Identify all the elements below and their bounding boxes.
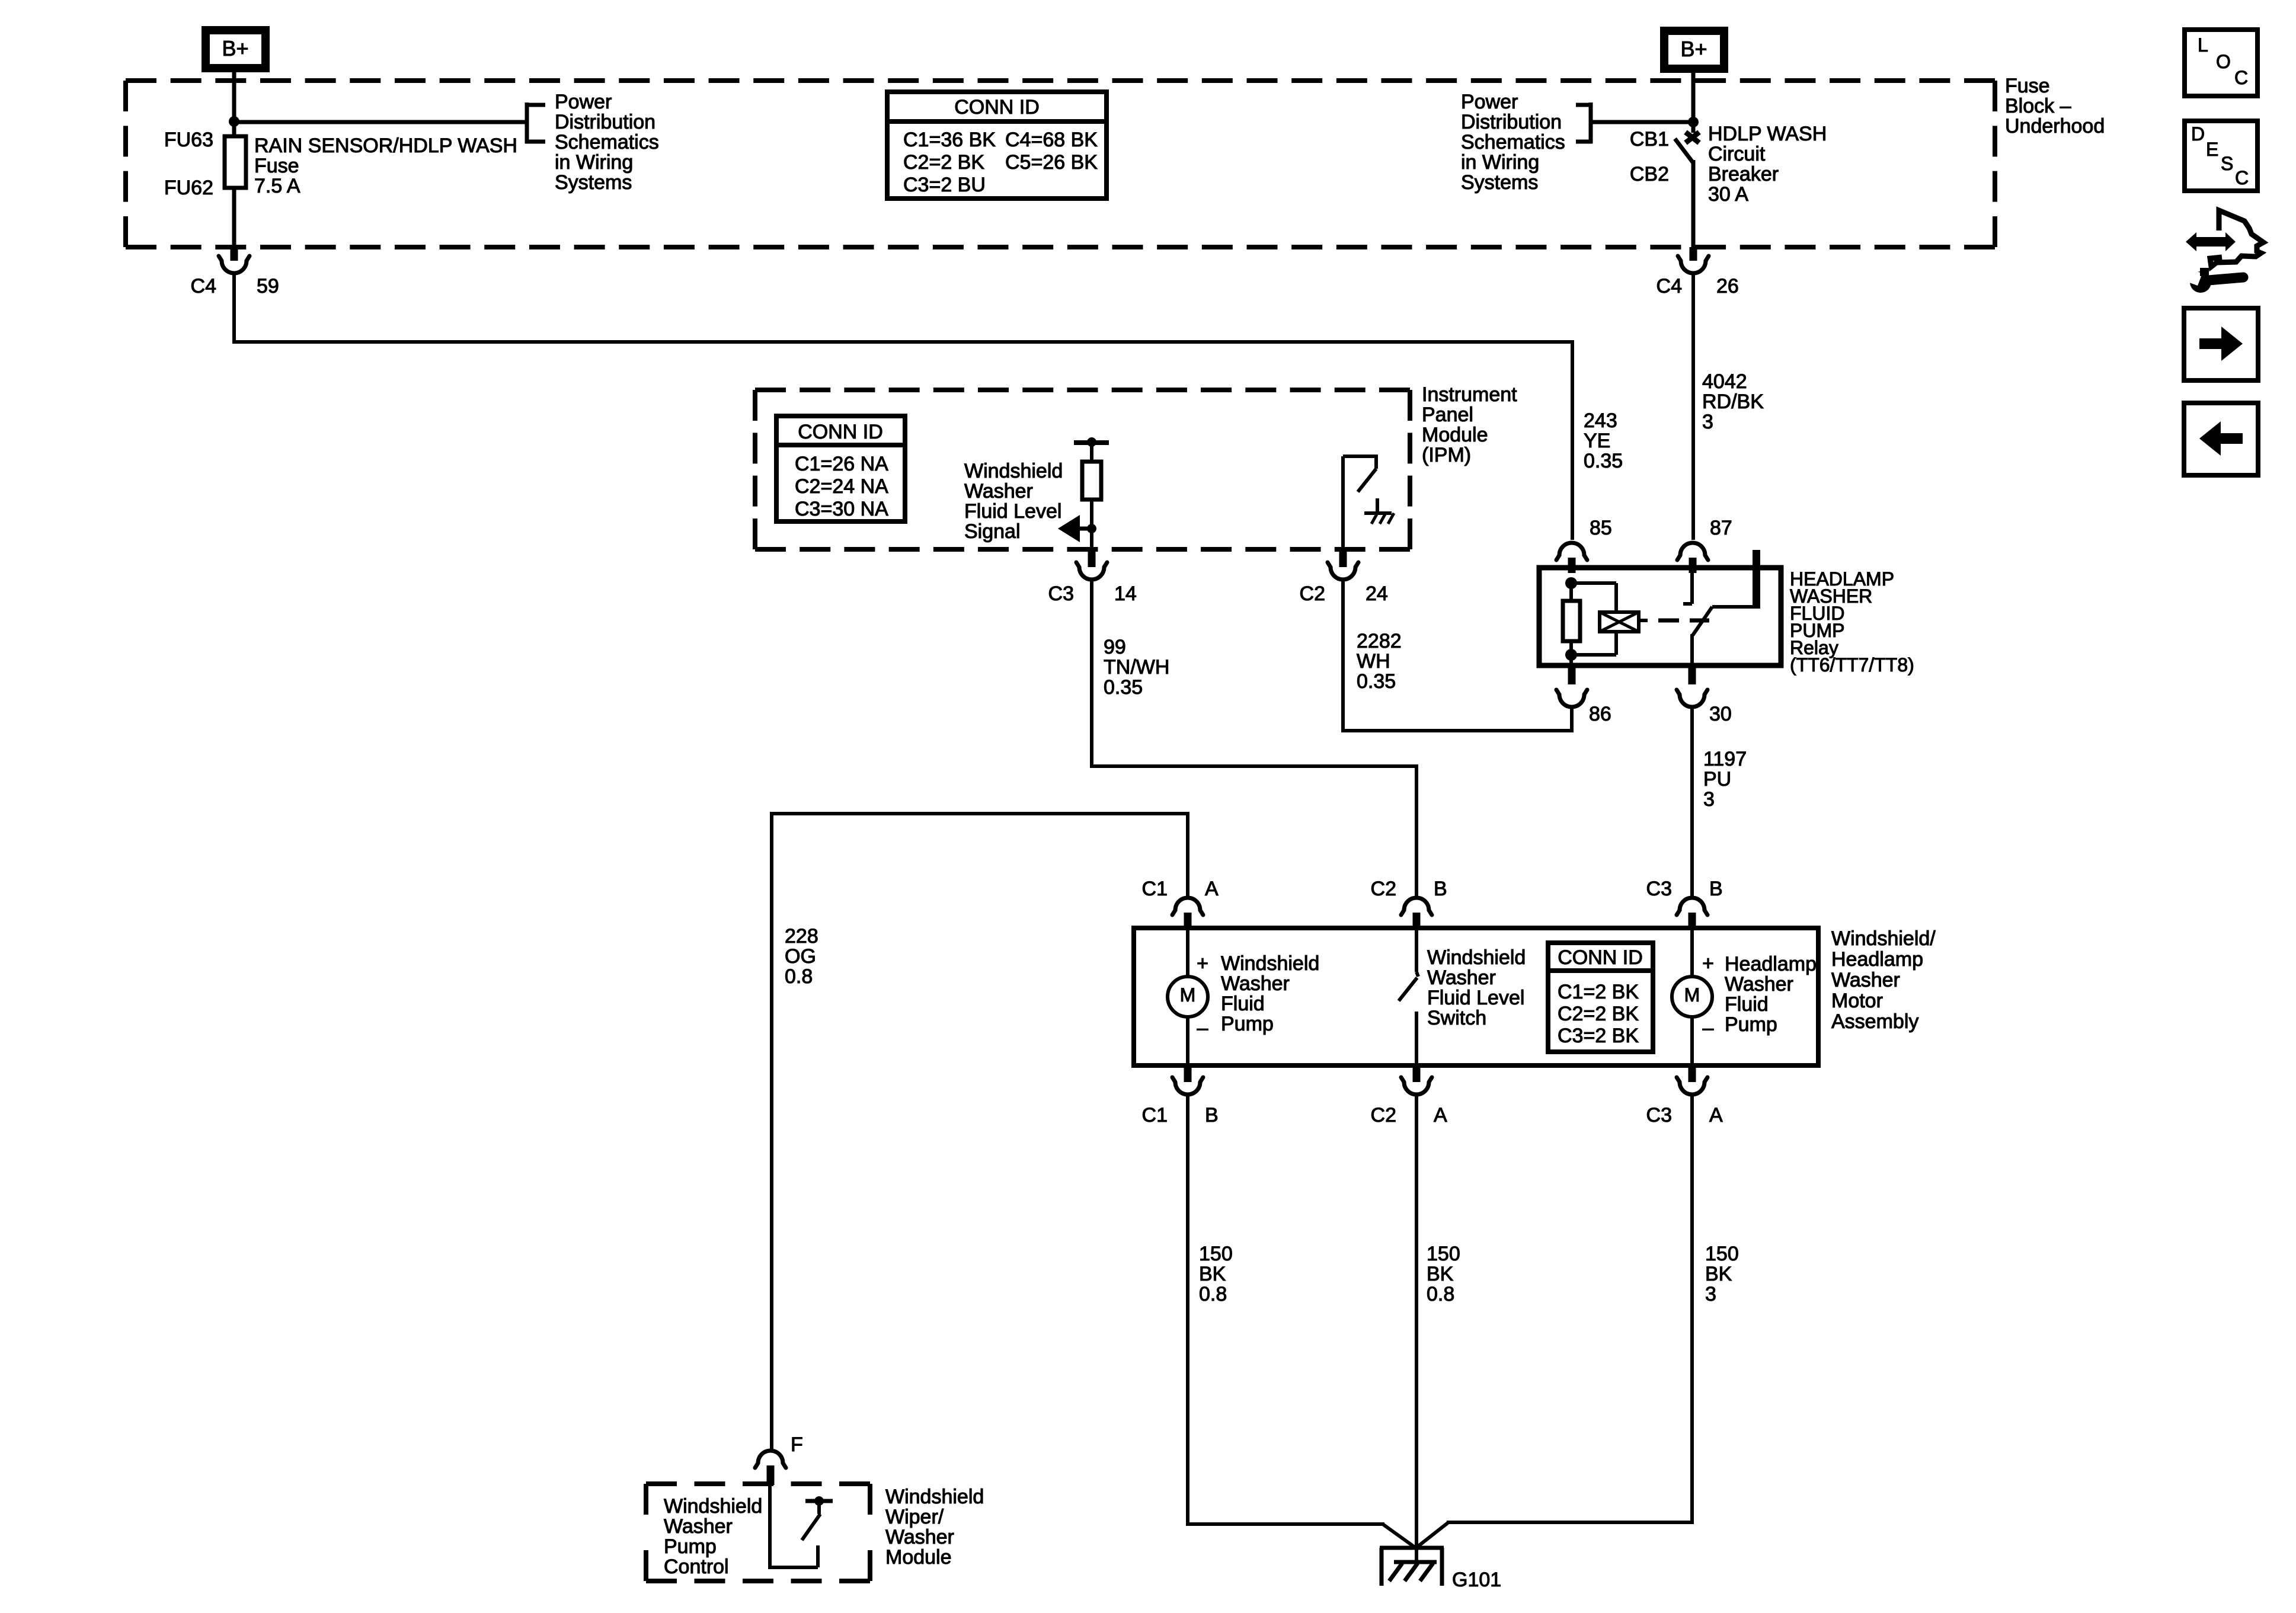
svg-text:1197: 1197 [1703, 748, 1747, 770]
svg-text:E: E [2206, 139, 2218, 160]
washer pump control label [664, 1495, 762, 1578]
svg-text:C2=2 BK: C2=2 BK [1558, 1003, 1639, 1025]
IPM chassis ground [1364, 498, 1394, 524]
ground G101 [1380, 1548, 1501, 1591]
svg-text:–: – [1197, 1017, 1208, 1039]
windshield washer motor M [1168, 930, 1208, 1063]
svg-text:Systems: Systems [555, 171, 632, 194]
washer fluid level switch label [1427, 946, 1526, 1029]
svg-text:Pump: Pump [1221, 1013, 1274, 1035]
relay actuation dashed line [1639, 619, 1709, 622]
node resistor top [1087, 437, 1096, 447]
svg-text:M: M [1180, 984, 1196, 1006]
svg-text:D: D [2191, 123, 2205, 145]
wire label 150 BK 0.8 left [1199, 1243, 1233, 1305]
svg-text:99: 99 [1104, 636, 1126, 658]
wire 228 OG [770, 812, 1189, 1449]
svg-text:CONN ID: CONN ID [798, 421, 883, 443]
CONN ID table (motor assembly) [1548, 943, 1653, 1052]
connector C3 pin B [1646, 878, 1723, 930]
connector C2 pin B [1371, 878, 1447, 930]
wire bracket to junction [1591, 120, 1693, 124]
svg-text:Windshield: Windshield [664, 1495, 762, 1518]
svg-text:B: B [1205, 1104, 1219, 1126]
svg-text:C3=2 BU: C3=2 BU [903, 174, 986, 196]
signal arrow [1058, 515, 1092, 542]
svg-text:G101: G101 [1452, 1569, 1501, 1591]
relay label [1790, 568, 1914, 676]
IPM sensor top bar [1074, 440, 1109, 445]
svg-text:Headlamp: Headlamp [1725, 953, 1817, 975]
svg-text:BK: BK [1199, 1263, 1226, 1285]
svg-text:Fluid: Fluid [1725, 993, 1769, 1016]
svg-text:Wiper/: Wiper/ [885, 1506, 944, 1528]
svg-text:–: – [1703, 1017, 1714, 1039]
svg-text:C1: C1 [1142, 1104, 1168, 1126]
svg-text:Schematics: Schematics [1461, 131, 1565, 153]
svg-text:A: A [1434, 1104, 1447, 1126]
svg-text:C: C [2234, 67, 2248, 88]
off-page bracket right [1576, 103, 1593, 143]
svg-text:C1=26 NA: C1=26 NA [795, 453, 888, 475]
svg-text:3: 3 [1703, 788, 1715, 811]
svg-text:Washer: Washer [1221, 972, 1290, 995]
wire label 243 YE 0.35 [1584, 409, 1623, 472]
svg-text:C3: C3 [1646, 878, 1672, 900]
connector C4 pin 59 [191, 247, 279, 297]
icon arrow right [2184, 308, 2258, 380]
svg-text:CONN ID: CONN ID [1558, 946, 1643, 969]
svg-text:Windshield: Windshield [885, 1486, 984, 1508]
svg-text:85: 85 [1590, 517, 1612, 539]
svg-text:FU62: FU62 [164, 177, 213, 199]
windshield washer fluid pump label [1221, 952, 1319, 1035]
wire 2282 WH [1341, 580, 1574, 732]
svg-text:Fluid Level: Fluid Level [1427, 987, 1524, 1009]
connector C2 pin A (bottom) [1371, 1065, 1447, 1126]
svg-text:B: B [1709, 878, 1723, 900]
svg-text:2282: 2282 [1357, 630, 1402, 652]
svg-text:7.5 A: 7.5 A [254, 175, 300, 197]
circuit breaker contact X [1686, 132, 1699, 143]
svg-text:Schematics: Schematics [555, 131, 659, 153]
svg-text:26: 26 [1716, 275, 1739, 297]
svg-text:C2: C2 [1371, 1104, 1396, 1126]
svg-text:Underhood: Underhood [2005, 115, 2105, 137]
svg-text:14: 14 [1114, 583, 1137, 605]
wire 150 BK 0.8 left [1186, 1095, 1416, 1548]
circuit breaker blade CB [1675, 139, 1693, 163]
fuse FU63/FU62 labels [164, 129, 213, 199]
wire label 150 BK 0.8 middle [1427, 1243, 1460, 1305]
fuse block label [2005, 75, 2105, 137]
svg-text:C1: C1 [1142, 878, 1168, 900]
svg-text:243: 243 [1584, 409, 1617, 432]
relay switch [1683, 570, 1756, 663]
svg-text:0.35: 0.35 [1357, 670, 1396, 693]
svg-text:C2=24 NA: C2=24 NA [795, 475, 888, 498]
icon DESC [2185, 121, 2257, 191]
power symbol B+ (left) [202, 26, 270, 72]
svg-text:86: 86 [1589, 703, 1611, 725]
svg-text:Washer: Washer [885, 1526, 954, 1548]
svg-text:150: 150 [1427, 1243, 1460, 1265]
wire label 1197 PU 3 [1703, 748, 1747, 811]
wire label 228 OG 0.8 [785, 925, 818, 988]
svg-text:Module: Module [885, 1546, 952, 1569]
svg-text:CONN ID: CONN ID [954, 96, 1040, 119]
connector relay pin 85 [1556, 517, 1612, 573]
svg-text:C5=26 BK: C5=26 BK [1005, 151, 1098, 174]
wire resistor down [1090, 500, 1093, 547]
power distribution label right [1461, 91, 1565, 194]
svg-text:Motor: Motor [1831, 990, 1883, 1012]
instrument panel module dashed box [755, 390, 1410, 549]
connector C1 pin B (bottom) [1142, 1065, 1219, 1126]
wire 243 YE [1571, 340, 1574, 540]
svg-text:B: B [1434, 878, 1447, 900]
svg-text:C3=30 NA: C3=30 NA [795, 498, 888, 520]
power symbol B+ (right) [1660, 27, 1728, 73]
svg-text:C: C [2235, 167, 2249, 188]
washer motor assembly box [1134, 928, 1818, 1065]
svg-text:C2: C2 [1371, 878, 1396, 900]
svg-text:in Wiring: in Wiring [1461, 151, 1539, 174]
svg-text:Fluid: Fluid [1221, 993, 1265, 1015]
svg-text:Power: Power [555, 91, 612, 113]
wire 150 BK 3 right [1415, 1095, 1694, 1548]
svg-text:Signal: Signal [964, 520, 1021, 543]
relay coil circuit [1565, 577, 1639, 661]
svg-text:CB2: CB2 [1630, 163, 1669, 185]
svg-text:BK: BK [1427, 1263, 1454, 1285]
svg-text:S: S [2221, 153, 2233, 174]
relay 87a stub [1753, 550, 1760, 609]
wire label 2282 WH 0.35 [1357, 630, 1402, 693]
svg-text:OG: OG [785, 945, 816, 968]
svg-text:30: 30 [1709, 703, 1732, 725]
svg-text:Switch: Switch [1427, 1007, 1486, 1029]
headlamp washer fluid pump label [1725, 953, 1817, 1036]
svg-text:0.8: 0.8 [785, 965, 813, 988]
svg-text:Control: Control [664, 1556, 729, 1578]
svg-text:+: + [1702, 952, 1714, 975]
CONN ID table (fuse block) [887, 92, 1107, 199]
svg-text:Pump: Pump [1725, 1013, 1777, 1036]
IPM label [1422, 383, 1517, 466]
svg-text:Module: Module [1422, 424, 1488, 446]
wire 1197 PU [1690, 708, 1694, 896]
svg-text:O: O [2216, 51, 2231, 72]
svg-text:C2: C2 [1300, 583, 1325, 605]
svg-text:Assembly: Assembly [1831, 1010, 1918, 1033]
wire 59 down and right [232, 274, 1574, 342]
svg-text:A: A [1709, 1104, 1723, 1126]
svg-text:Windshield/: Windshield/ [1831, 927, 1936, 950]
CONN ID table (IPM) [776, 416, 905, 521]
washer pump switch [768, 1485, 833, 1567]
svg-text:C3: C3 [1646, 1104, 1672, 1126]
svg-text:C2=2 BK: C2=2 BK [903, 151, 984, 174]
power distribution label left [555, 91, 659, 194]
connector C4 pin 26 [1657, 247, 1739, 297]
washer motor assembly label [1831, 927, 1936, 1033]
svg-text:C3: C3 [1048, 583, 1074, 605]
svg-text:4042: 4042 [1702, 370, 1747, 393]
svg-text:Fuse: Fuse [254, 155, 299, 177]
svg-text:Washer: Washer [1725, 973, 1793, 996]
wire B+ to fuse [232, 72, 236, 136]
svg-text:Washer: Washer [1427, 966, 1496, 989]
node junction right [1688, 117, 1699, 127]
svg-text:C4=68 BK: C4=68 BK [1005, 129, 1098, 151]
wire to power distribution ref [234, 120, 525, 124]
svg-text:C4: C4 [1657, 275, 1682, 297]
resistor (fluid level sense) [1082, 443, 1101, 500]
windshield washer fluid level signal label [964, 460, 1063, 543]
node junction left [229, 116, 239, 127]
svg-text:CB1: CB1 [1630, 128, 1669, 151]
wire fuse to C4 [232, 188, 236, 249]
svg-text:RD/BK: RD/BK [1702, 391, 1764, 413]
svg-text:Pump: Pump [664, 1535, 717, 1558]
svg-text:Power: Power [1461, 91, 1518, 113]
svg-text:150: 150 [1705, 1243, 1739, 1265]
svg-text:C4: C4 [191, 275, 216, 297]
wire 150 BK 0.8 middle [1415, 1095, 1418, 1563]
svg-text:TN/WH: TN/WH [1104, 656, 1169, 679]
relay resistor [1563, 583, 1580, 663]
relay box [1539, 568, 1781, 665]
svg-text:C3=2 BK: C3=2 BK [1558, 1025, 1639, 1047]
svg-text:Block –: Block – [2005, 95, 2071, 117]
washer pump control dashed box [646, 1484, 870, 1581]
wire label 150 BK 3 right [1705, 1243, 1739, 1305]
headlamp washer motor M [1672, 930, 1714, 1063]
svg-text:3: 3 [1702, 411, 1713, 433]
icon arrow left [2184, 403, 2258, 475]
svg-text:30 A: 30 A [1708, 183, 1748, 206]
svg-text:+: + [1197, 952, 1208, 975]
svg-text:B+: B+ [1680, 37, 1707, 61]
svg-text:M: M [1684, 984, 1700, 1006]
connector C3 pin 14 [1048, 549, 1137, 605]
svg-text:F: F [791, 1433, 803, 1456]
svg-text:FU63: FU63 [164, 129, 213, 151]
wire label 99 TN/WH 0.35 [1104, 636, 1169, 699]
wire breaker down [1691, 160, 1696, 249]
svg-text:3: 3 [1705, 1283, 1716, 1305]
connector C2 pin 24 [1300, 549, 1388, 605]
svg-text:Washer: Washer [664, 1515, 733, 1538]
svg-text:Panel: Panel [1422, 404, 1473, 426]
wire label 4042 RD/BK 3 [1702, 370, 1764, 433]
icon LOC [2185, 30, 2257, 96]
wire 86 to IPM [1343, 708, 1574, 732]
connector relay pin 87 [1677, 517, 1732, 573]
washer fluid level switch [1399, 930, 1418, 1063]
svg-text:A: A [1205, 878, 1219, 900]
svg-text:C1=36 BK: C1=36 BK [903, 129, 996, 151]
svg-text:Distribution: Distribution [555, 111, 655, 133]
wire 99 TN/WH [1090, 580, 1418, 896]
CB1 CB2 labels [1630, 128, 1669, 185]
windshield wiper washer module label [885, 1486, 984, 1569]
connector relay pin 30 [1677, 665, 1732, 725]
svg-text:228: 228 [785, 925, 818, 948]
connector C3 pin A (bottom) [1646, 1065, 1723, 1126]
svg-text:Circuit: Circuit [1708, 143, 1766, 165]
svg-text:0.8: 0.8 [1199, 1283, 1227, 1305]
fuse block underhood dashed box [126, 81, 1995, 247]
svg-text:(IPM): (IPM) [1422, 444, 1471, 466]
svg-text:150: 150 [1199, 1243, 1233, 1265]
svg-text:B+: B+ [222, 36, 248, 60]
svg-text:87: 87 [1710, 517, 1732, 539]
icon schematic navigation (arrows and wrench) [2185, 210, 2263, 293]
HDLP WASH circuit breaker label [1708, 123, 1827, 206]
svg-text:L: L [2198, 34, 2208, 56]
svg-text:Distribution: Distribution [1461, 111, 1562, 133]
svg-text:Systems: Systems [1461, 171, 1538, 194]
fuse RAIN SENSOR/HDLP WASH 7.5A [225, 135, 517, 197]
svg-text:Headlamp: Headlamp [1831, 948, 1923, 971]
svg-text:Washer: Washer [964, 480, 1033, 503]
svg-text:Windshield: Windshield [1427, 946, 1526, 969]
svg-text:C1=2 BK: C1=2 BK [1558, 981, 1639, 1003]
svg-text:in Wiring: in Wiring [555, 151, 633, 174]
svg-text:Fluid Level: Fluid Level [964, 500, 1061, 523]
svg-text:0.8: 0.8 [1427, 1283, 1454, 1305]
connector relay pin 86 [1556, 665, 1611, 725]
svg-text:Washer: Washer [1831, 969, 1900, 991]
svg-text:HDLP WASH: HDLP WASH [1708, 123, 1827, 145]
svg-text:0.35: 0.35 [1584, 450, 1623, 472]
svg-text:YE: YE [1584, 430, 1610, 452]
svg-text:Windshield: Windshield [964, 460, 1063, 482]
svg-text:24: 24 [1366, 583, 1388, 605]
wire B+ right down [1691, 73, 1696, 133]
off-page bracket left [525, 103, 545, 143]
svg-text:0.35: 0.35 [1104, 676, 1143, 699]
svg-text:Fuse: Fuse [2005, 75, 2050, 97]
svg-text:BK: BK [1705, 1263, 1732, 1285]
connector F [755, 1433, 803, 1485]
svg-text:WH: WH [1357, 650, 1390, 673]
IPM relay control switch [1343, 455, 1376, 547]
svg-text:Windshield: Windshield [1221, 952, 1319, 975]
svg-text:59: 59 [257, 275, 279, 297]
svg-text:Instrument: Instrument [1422, 383, 1517, 406]
node signal [1087, 524, 1096, 533]
svg-text:PU: PU [1703, 768, 1731, 791]
connector C1 pin A [1142, 878, 1219, 930]
svg-text:(TT6/TT7/TT8): (TT6/TT7/TT8) [1790, 654, 1914, 676]
svg-text:Breaker: Breaker [1708, 163, 1779, 185]
wire 4042 RD/BK [1691, 274, 1695, 540]
svg-text:RAIN SENSOR/HDLP WASH: RAIN SENSOR/HDLP WASH [254, 135, 517, 157]
